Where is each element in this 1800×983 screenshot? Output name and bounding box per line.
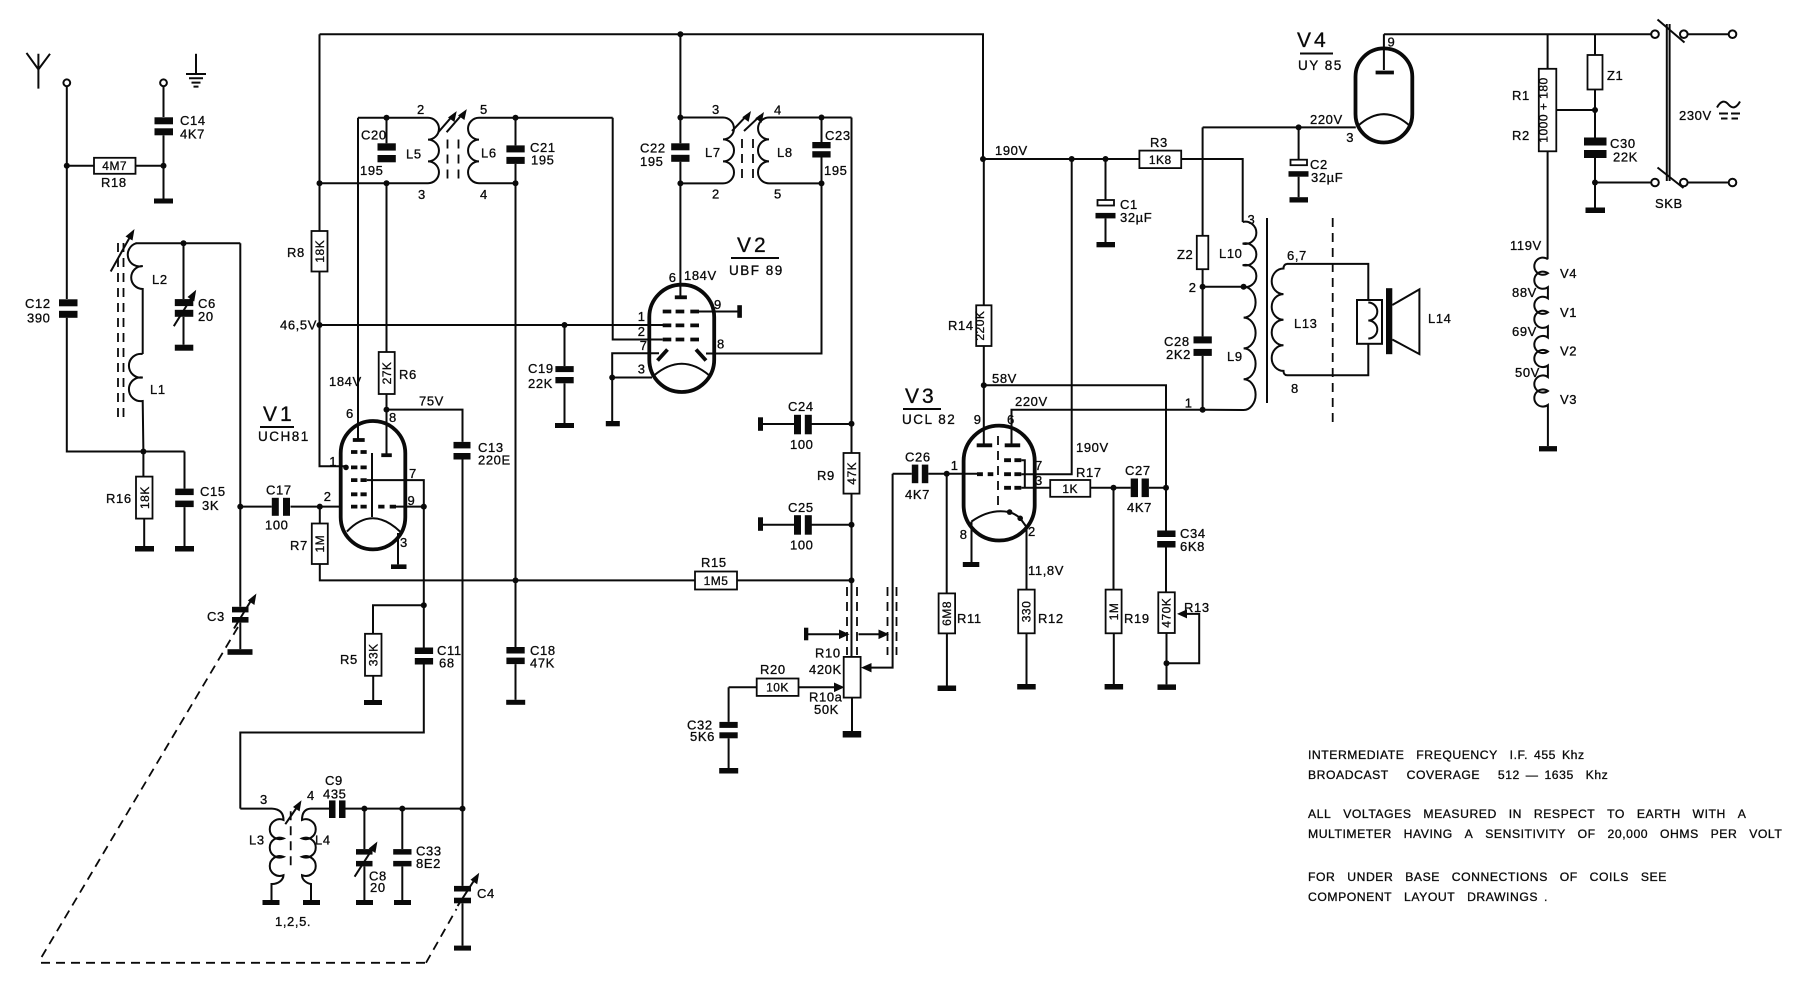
svg-text:1: 1 bbox=[951, 458, 958, 473]
svg-text:R18: R18 bbox=[101, 175, 127, 190]
svg-text:V4: V4 bbox=[1297, 29, 1329, 52]
svg-text:7: 7 bbox=[640, 338, 647, 353]
svg-text:C4: C4 bbox=[477, 886, 495, 901]
resistor R6 bbox=[379, 183, 417, 455]
svg-text:V4: V4 bbox=[1560, 266, 1577, 281]
preset R13 bbox=[1158, 592, 1210, 690]
capacitor C19 bbox=[528, 322, 574, 428]
variable capacitor C3 bbox=[207, 594, 256, 655]
svg-text:5K6: 5K6 bbox=[690, 729, 715, 744]
capacitor C15 bbox=[175, 452, 226, 552]
V1 pin2/pin9 row wires bbox=[291, 506, 424, 508]
svg-text:UY 85: UY 85 bbox=[1298, 58, 1343, 73]
capacitor C27 bbox=[1114, 463, 1170, 515]
capacitor C1 (electrolytic) bbox=[1096, 156, 1153, 247]
V4 pin9 bbox=[1383, 34, 1385, 70]
svg-text:4K7: 4K7 bbox=[905, 487, 930, 502]
svg-text:R17: R17 bbox=[1076, 465, 1102, 480]
coil L6 bbox=[468, 102, 497, 202]
wire 220V down to Z2 bbox=[1202, 127, 1204, 235]
svg-text:L4: L4 bbox=[315, 833, 331, 848]
variable capacitor C4 bbox=[454, 806, 495, 951]
V3 pin8 ground bbox=[971, 522, 973, 563]
svg-text:195: 195 bbox=[360, 163, 384, 178]
wire C13 down to oscillator line bbox=[462, 460, 464, 809]
resistor R5 bbox=[340, 605, 424, 705]
wire IF1 to V2 pin2 bbox=[613, 118, 663, 340]
wire earth terminal to C14 bbox=[163, 86, 165, 117]
svg-text:2: 2 bbox=[417, 102, 424, 117]
mains 230V bbox=[1679, 102, 1740, 124]
svg-text:9: 9 bbox=[714, 297, 721, 312]
ground (earth symbol) bbox=[186, 54, 206, 87]
V1 pin7 wire bbox=[367, 480, 424, 605]
svg-text:2: 2 bbox=[1028, 524, 1035, 539]
svg-text:L2: L2 bbox=[152, 272, 168, 287]
svg-text:C27: C27 bbox=[1125, 463, 1151, 478]
V3 cathode bbox=[972, 511, 1009, 521]
wire V3 pin9 bbox=[983, 385, 985, 444]
svg-text:2: 2 bbox=[324, 489, 331, 504]
svg-text:ALL VOLTAGES MEASURED IN R: ALL VOLTAGES MEASURED IN RESPECT TO EART… bbox=[1308, 807, 1747, 821]
coil L2 bbox=[128, 243, 168, 354]
svg-text:5: 5 bbox=[774, 187, 781, 202]
svg-text:2: 2 bbox=[1189, 280, 1196, 295]
svg-text:8: 8 bbox=[960, 527, 967, 542]
svg-text:8: 8 bbox=[1291, 381, 1298, 396]
svg-text:R3: R3 bbox=[1150, 135, 1168, 150]
capacitor C23 bbox=[812, 115, 850, 187]
wire R8 to 46.5V node bbox=[319, 272, 321, 326]
svg-text:6: 6 bbox=[669, 270, 676, 285]
coil L10 bbox=[1219, 212, 1256, 287]
V1 grid rows bbox=[351, 452, 396, 507]
svg-text:195: 195 bbox=[531, 153, 555, 168]
capacitor C34 bbox=[1157, 488, 1205, 593]
V2 pin3 wire + ground bbox=[609, 375, 615, 381]
svg-text:6M8: 6M8 bbox=[940, 601, 954, 626]
node C14/R18 bbox=[161, 163, 167, 169]
svg-text:50V: 50V bbox=[1515, 365, 1540, 380]
oscillator core dashed bbox=[290, 811, 292, 870]
switch SKB bbox=[1595, 20, 1736, 212]
node C17 left bbox=[237, 504, 243, 510]
resistor R3 bbox=[1139, 135, 1242, 222]
capacitor C26 bbox=[893, 450, 977, 503]
svg-text:C25: C25 bbox=[788, 500, 814, 515]
node grid1 bbox=[343, 465, 349, 471]
resistor R11 bbox=[938, 474, 982, 691]
wire C12 down to bottom rail bbox=[67, 318, 185, 452]
190V rail bbox=[983, 158, 1139, 160]
trimmer C8 bbox=[355, 806, 387, 905]
svg-text:L6: L6 bbox=[481, 146, 497, 161]
svg-text:R8: R8 bbox=[287, 245, 305, 260]
coil L1 bbox=[129, 354, 166, 452]
svg-text:C3: C3 bbox=[207, 609, 225, 624]
svg-text:L7: L7 bbox=[705, 145, 721, 160]
svg-text:1000 + 180: 1000 + 180 bbox=[1537, 77, 1551, 142]
svg-text:184V: 184V bbox=[684, 268, 717, 283]
capacitor C2 (electrolytic) bbox=[1289, 124, 1344, 202]
svg-text:32µF: 32µF bbox=[1311, 170, 1343, 185]
capacitor C21 bbox=[506, 115, 555, 581]
svg-text:27K: 27K bbox=[380, 362, 394, 385]
wire L2 top to C3 bbox=[239, 243, 241, 607]
svg-text:FOR UNDER BASE CONNECTIONS: FOR UNDER BASE CONNECTIONS OF COILS SEE bbox=[1308, 870, 1667, 884]
R10 wiper from C26 bbox=[866, 474, 893, 668]
svg-text:V2: V2 bbox=[737, 234, 769, 257]
coil L13 bbox=[1272, 248, 1318, 396]
svg-text:R1: R1 bbox=[1512, 88, 1530, 103]
svg-text:190V: 190V bbox=[995, 143, 1028, 158]
oscillator line bbox=[240, 808, 462, 810]
svg-text:100: 100 bbox=[790, 538, 814, 553]
resistor R7 bbox=[290, 507, 695, 581]
svg-text:C20: C20 bbox=[361, 128, 387, 143]
svg-text:L1: L1 bbox=[150, 382, 166, 397]
coil L9 bbox=[1203, 287, 1256, 410]
resistor R9 bbox=[817, 453, 860, 494]
svg-text:C23: C23 bbox=[825, 128, 851, 143]
svg-text:46,5V: 46,5V bbox=[280, 318, 317, 333]
svg-text:7: 7 bbox=[1035, 458, 1042, 473]
V1 pin 8 bar bbox=[381, 453, 392, 457]
svg-text:3: 3 bbox=[1035, 473, 1042, 488]
V2 cathode bbox=[654, 364, 709, 376]
svg-text:C24: C24 bbox=[788, 399, 814, 414]
svg-text:9: 9 bbox=[1388, 35, 1395, 50]
svg-text:4: 4 bbox=[307, 788, 314, 803]
svg-text:SKB: SKB bbox=[1655, 196, 1683, 211]
resistor R8 bbox=[287, 231, 328, 272]
svg-text:1: 1 bbox=[1185, 396, 1192, 411]
svg-text:390: 390 bbox=[27, 311, 51, 326]
svg-text:8: 8 bbox=[389, 410, 396, 425]
V2 diode plates bbox=[658, 350, 707, 361]
svg-text:V3: V3 bbox=[905, 385, 937, 408]
svg-text:Z2: Z2 bbox=[1177, 247, 1193, 262]
svg-text:R9: R9 bbox=[817, 468, 835, 483]
V3 anode bars bbox=[977, 443, 1021, 447]
IF2 rails bbox=[680, 118, 851, 184]
svg-text:75V: 75V bbox=[419, 394, 444, 409]
svg-text:6,7: 6,7 bbox=[1287, 248, 1307, 263]
V1 cathode bbox=[371, 453, 373, 517]
svg-text:UCH81: UCH81 bbox=[258, 429, 310, 444]
svg-text:C17: C17 bbox=[266, 483, 292, 498]
svg-text:2: 2 bbox=[638, 324, 645, 339]
capacitor C28 bbox=[1164, 287, 1212, 410]
capacitor C18 bbox=[506, 577, 555, 704]
svg-text:COMPONENT LAYOUT DRAWINGS .: COMPONENT LAYOUT DRAWINGS . bbox=[1308, 890, 1548, 904]
svg-text:1M: 1M bbox=[1107, 603, 1121, 621]
svg-text:R6: R6 bbox=[399, 367, 417, 382]
svg-text:470K: 470K bbox=[1160, 598, 1174, 628]
node L1 bottom rail bbox=[140, 449, 146, 455]
svg-text:1: 1 bbox=[329, 454, 336, 469]
capacitor C9 bbox=[323, 773, 347, 818]
wire L2 top rail bbox=[136, 242, 241, 244]
58V wire to C27/C34 node bbox=[984, 385, 1166, 488]
svg-text:18K: 18K bbox=[138, 486, 152, 509]
capacitor C12 bbox=[25, 296, 78, 326]
svg-text:L3: L3 bbox=[249, 833, 265, 848]
trimmer C6 bbox=[174, 243, 216, 351]
V2 grid rows bbox=[663, 312, 699, 340]
wire AVC line right of R15 bbox=[737, 579, 852, 581]
svg-text:69V: 69V bbox=[1512, 324, 1537, 339]
pot linkage dashed bbox=[847, 587, 897, 655]
svg-text:220V: 220V bbox=[1015, 394, 1048, 409]
IF2 tuning arrows bbox=[732, 111, 764, 131]
wire 184V grid feed bbox=[320, 325, 346, 466]
IF2 core dashed bbox=[742, 139, 753, 183]
node 190V bbox=[980, 156, 986, 162]
svg-text:V2: V2 bbox=[1560, 344, 1577, 359]
heater bus top bbox=[1384, 33, 1652, 35]
coil L5 bbox=[406, 102, 439, 202]
wire bus to C22/V2 pin6 bbox=[679, 34, 681, 297]
IF1 rails bbox=[320, 118, 613, 183]
svg-text:230V: 230V bbox=[1679, 108, 1712, 123]
220V rail to V4 bbox=[1203, 126, 1356, 128]
tube V2 bbox=[649, 234, 783, 392]
wire bus down to IF1 bottom rail and R8 bbox=[319, 34, 321, 231]
svg-text:68: 68 bbox=[439, 656, 455, 671]
svg-text:4K7: 4K7 bbox=[180, 127, 205, 142]
node antenna/R18 bbox=[64, 163, 70, 169]
svg-text:195: 195 bbox=[640, 154, 664, 169]
svg-text:7: 7 bbox=[409, 466, 416, 481]
svg-text:47K: 47K bbox=[845, 462, 859, 485]
svg-text:22K: 22K bbox=[528, 376, 553, 391]
svg-text:2: 2 bbox=[712, 187, 719, 202]
ground below C14 bbox=[154, 199, 173, 204]
node R15 right bbox=[849, 577, 855, 583]
oscillator arrow bbox=[285, 800, 301, 824]
svg-text:420K: 420K bbox=[809, 662, 842, 677]
svg-text:C26: C26 bbox=[905, 450, 931, 465]
svg-text:20: 20 bbox=[198, 309, 214, 324]
svg-text:88V: 88V bbox=[1512, 285, 1537, 300]
svg-text:3: 3 bbox=[260, 792, 267, 807]
node R5/C11 bbox=[421, 602, 427, 608]
variable arrow L2 bbox=[111, 229, 135, 272]
svg-text:R5: R5 bbox=[340, 652, 358, 667]
svg-text:10K: 10K bbox=[766, 681, 789, 695]
resistor R14 bbox=[948, 159, 992, 385]
capacitor C17 bbox=[240, 483, 291, 533]
wire 75V to C13 bbox=[387, 410, 463, 442]
resistor R1/R2 bbox=[1512, 34, 1598, 259]
svg-text:L10: L10 bbox=[1219, 246, 1243, 261]
svg-text:V1: V1 bbox=[263, 403, 295, 426]
wire antenna down bbox=[66, 86, 68, 299]
detector column wire bbox=[851, 424, 853, 581]
resistor Z2 bbox=[1177, 236, 1208, 287]
coil L4 bbox=[302, 788, 331, 905]
node 75V bbox=[384, 407, 390, 413]
pot linkage arrows bbox=[804, 628, 889, 641]
V4 cathode bbox=[1358, 114, 1411, 126]
node bus/IF1 bottom bbox=[317, 180, 323, 186]
svg-text:1M5: 1M5 bbox=[704, 574, 729, 588]
svg-text:6: 6 bbox=[346, 406, 353, 421]
coil L7 bbox=[705, 102, 734, 202]
svg-text:220K: 220K bbox=[973, 311, 987, 341]
V3 pin1/pin7 row bbox=[977, 472, 1021, 476]
capacitor C30 bbox=[1584, 136, 1638, 213]
svg-text:4: 4 bbox=[480, 187, 487, 202]
svg-text:R7: R7 bbox=[290, 538, 308, 553]
svg-text:5: 5 bbox=[480, 102, 487, 117]
gang linkage dashed bbox=[41, 627, 457, 963]
svg-text:4M7: 4M7 bbox=[102, 159, 127, 173]
svg-text:190V: 190V bbox=[1076, 440, 1109, 455]
wire pin6 from IF1 bbox=[357, 118, 359, 440]
tube V4 bbox=[1297, 29, 1412, 143]
svg-text:32µF: 32µF bbox=[1120, 210, 1152, 225]
svg-text:184V: 184V bbox=[329, 374, 362, 389]
svg-text:100: 100 bbox=[790, 437, 814, 452]
V3 pin2 wire bbox=[1020, 518, 1026, 589]
svg-text:220E: 220E bbox=[478, 453, 511, 468]
svg-text:1K: 1K bbox=[1062, 482, 1078, 496]
svg-text:47K: 47K bbox=[530, 656, 555, 671]
fuse Z1 bbox=[1588, 34, 1624, 137]
capacitor C20 bbox=[360, 115, 396, 186]
node 46.5V bbox=[317, 322, 323, 328]
svg-text:V3: V3 bbox=[1560, 392, 1577, 407]
svg-text:22K: 22K bbox=[1613, 150, 1638, 165]
svg-text:C19: C19 bbox=[528, 361, 554, 376]
svg-text:58V: 58V bbox=[992, 371, 1017, 386]
capacitor C11 bbox=[240, 605, 461, 808]
svg-text:R19: R19 bbox=[1124, 611, 1150, 626]
svg-text:C12: C12 bbox=[25, 296, 51, 311]
capacitor C22 bbox=[640, 141, 690, 170]
svg-text:V1: V1 bbox=[1560, 305, 1577, 320]
svg-text:R13: R13 bbox=[1184, 600, 1210, 615]
IF1 core dashed bbox=[448, 140, 459, 182]
svg-text:435: 435 bbox=[323, 787, 347, 802]
wire C14 to R18 node bbox=[163, 135, 165, 198]
heater chain coils bbox=[1510, 238, 1577, 451]
tube V3 bbox=[902, 385, 1035, 541]
svg-text:UCL 82: UCL 82 bbox=[902, 412, 956, 427]
resistor R12 bbox=[1017, 590, 1063, 690]
svg-text:330: 330 bbox=[1020, 601, 1034, 623]
V3 g3 row bbox=[1004, 458, 1021, 462]
resistor R19 bbox=[1105, 488, 1150, 690]
svg-text:220V: 220V bbox=[1310, 112, 1343, 127]
V1 pin 3 cathode ground bbox=[397, 533, 399, 564]
svg-text:33K: 33K bbox=[367, 643, 381, 666]
capacitor C32 bbox=[687, 687, 738, 773]
resistor R17 bbox=[1050, 465, 1116, 497]
coil L8 bbox=[758, 103, 793, 202]
svg-text:MULTIMETER HAVING A SENSITI: MULTIMETER HAVING A SENSITIVITY OF 20,00… bbox=[1308, 827, 1782, 841]
svg-text:50K: 50K bbox=[814, 702, 839, 717]
svg-text:L13: L13 bbox=[1294, 316, 1318, 331]
svg-text:L5: L5 bbox=[406, 147, 422, 162]
speaker separator dashed bbox=[1332, 218, 1334, 422]
svg-text:119V: 119V bbox=[1510, 238, 1542, 253]
antenna terminal bbox=[63, 79, 70, 86]
svg-text:L14: L14 bbox=[1428, 311, 1452, 326]
svg-text:8E2: 8E2 bbox=[416, 856, 441, 871]
node IF2 feed on bus bbox=[677, 31, 683, 37]
resistor R16 bbox=[106, 452, 154, 552]
svg-text:1,2,5.: 1,2,5. bbox=[275, 914, 311, 929]
svg-text:3: 3 bbox=[638, 362, 645, 377]
IF1 tuning arrows bbox=[438, 109, 467, 132]
svg-text:R2: R2 bbox=[1512, 128, 1530, 143]
antenna bbox=[27, 53, 51, 89]
node pin1 bbox=[1200, 407, 1206, 413]
svg-text:100: 100 bbox=[265, 518, 289, 533]
wire C23 node down to detector column bbox=[851, 118, 853, 424]
svg-text:8: 8 bbox=[717, 337, 724, 352]
V2 pin 6 anode bar bbox=[675, 295, 687, 299]
node pin2 bbox=[1200, 284, 1206, 290]
svg-text:C15: C15 bbox=[200, 484, 226, 499]
V3 internal screen dashed bbox=[997, 436, 999, 509]
node C6 top bbox=[181, 240, 187, 246]
svg-text:R20: R20 bbox=[760, 662, 786, 677]
speaker L14 bbox=[1357, 288, 1452, 354]
svg-text:20: 20 bbox=[370, 880, 386, 895]
resistor R18 bbox=[67, 158, 164, 190]
coil L3 bbox=[249, 792, 284, 905]
svg-text:3: 3 bbox=[418, 187, 425, 202]
svg-text:L8: L8 bbox=[777, 145, 793, 160]
svg-text:4K7: 4K7 bbox=[1127, 500, 1152, 515]
svg-text:L9: L9 bbox=[1227, 349, 1243, 364]
capacitor C24 bbox=[758, 399, 855, 452]
svg-text:Z1: Z1 bbox=[1607, 68, 1623, 83]
svg-text:4: 4 bbox=[774, 103, 781, 118]
capacitor C25 bbox=[758, 500, 855, 553]
svg-text:195: 195 bbox=[824, 163, 848, 178]
svg-text:UBF 89: UBF 89 bbox=[729, 263, 784, 278]
svg-text:9: 9 bbox=[974, 412, 981, 427]
svg-text:3: 3 bbox=[1346, 130, 1353, 145]
node 58V bbox=[981, 382, 987, 388]
svg-text:INTERMEDIATE FREQUENCY I.F.: INTERMEDIATE FREQUENCY I.F. 455 Khz bbox=[1308, 748, 1585, 762]
svg-text:R12: R12 bbox=[1038, 611, 1064, 626]
svg-text:1K8: 1K8 bbox=[1149, 153, 1172, 167]
svg-text:9: 9 bbox=[408, 493, 415, 508]
svg-text:R15: R15 bbox=[701, 555, 727, 570]
earth terminal bbox=[160, 79, 167, 86]
svg-text:1M: 1M bbox=[313, 535, 327, 553]
svg-text:11,8V: 11,8V bbox=[1028, 563, 1064, 578]
svg-text:6K8: 6K8 bbox=[1180, 539, 1205, 554]
capacitor C33 bbox=[393, 806, 441, 905]
transformer core bbox=[1266, 218, 1268, 403]
V2 pin 9 wire and stub bbox=[699, 311, 738, 313]
svg-text:R16: R16 bbox=[106, 491, 132, 506]
svg-text:R10: R10 bbox=[815, 646, 841, 661]
top HT bus bbox=[320, 34, 984, 159]
wire 46.5V line to V2 pin 1 bbox=[320, 324, 664, 326]
secondary wires bbox=[1287, 264, 1368, 375]
tuning core dashed (L1/L2) bbox=[118, 243, 124, 418]
capacitor C13 bbox=[454, 440, 511, 468]
svg-text:1: 1 bbox=[638, 309, 645, 324]
